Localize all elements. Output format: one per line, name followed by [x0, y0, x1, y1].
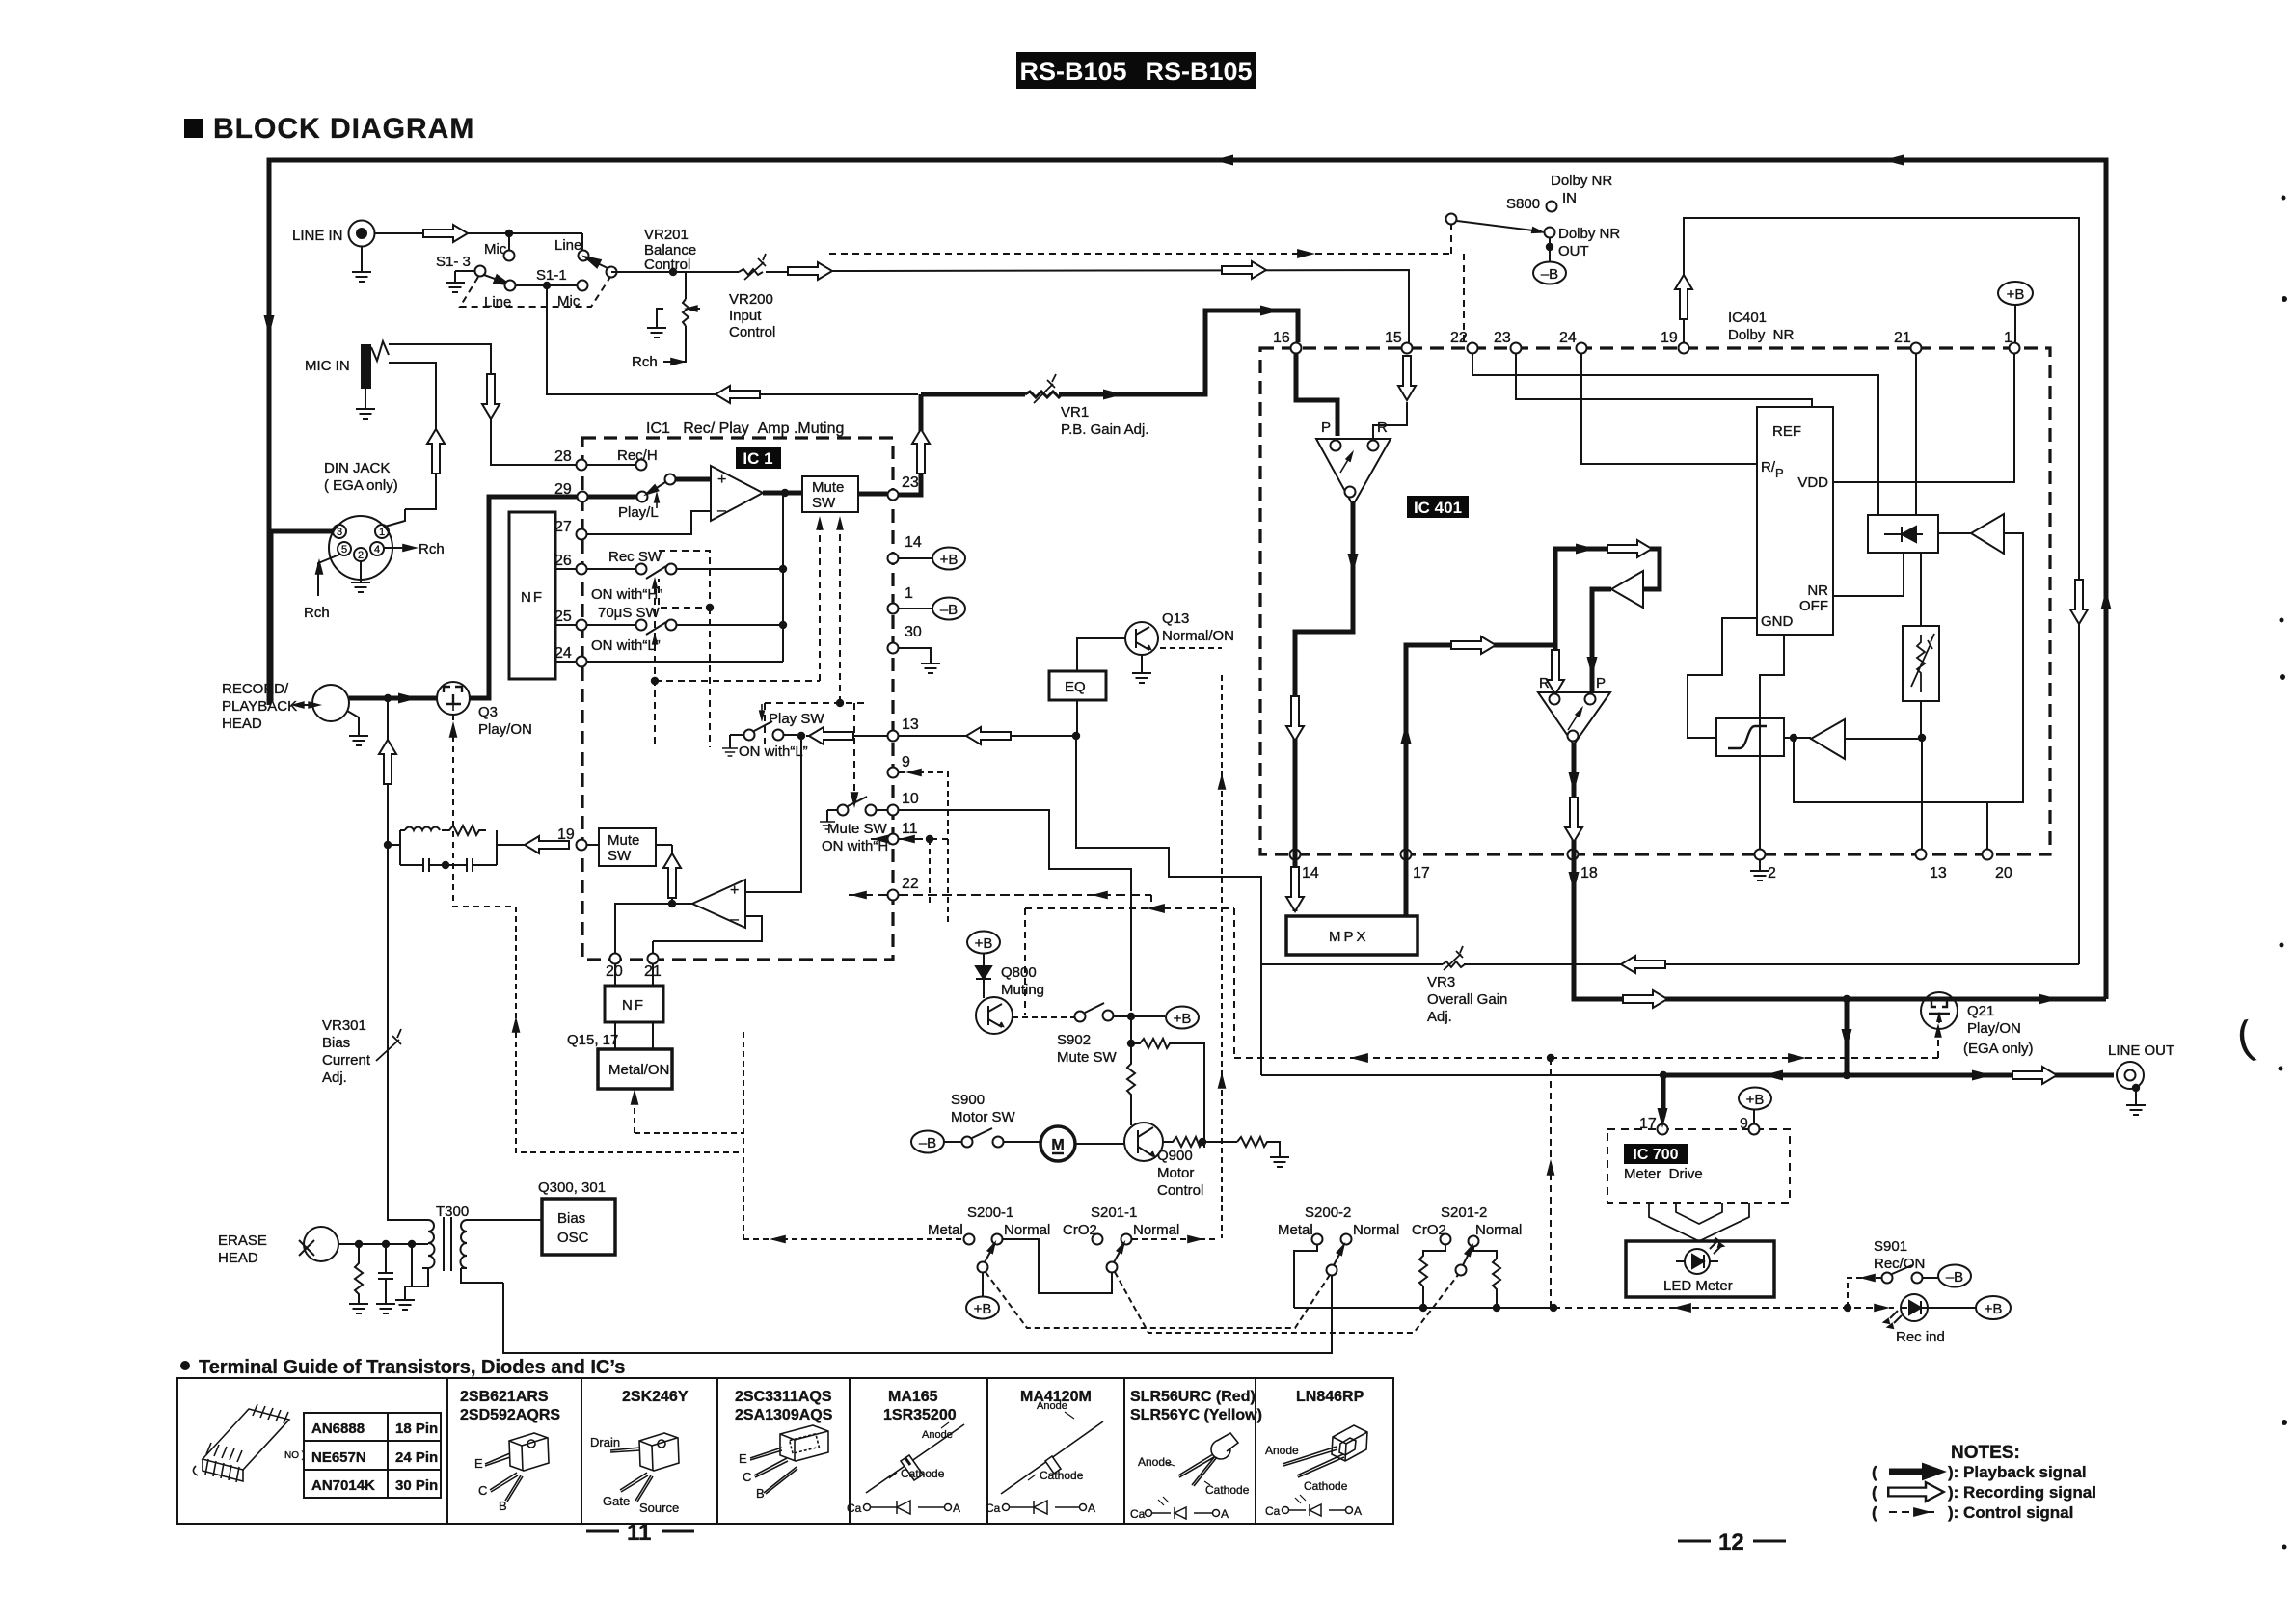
- VDD wire to pin 1: [1833, 353, 2014, 482]
- Q21 transistor: [1921, 992, 2034, 1057]
- svg-text:MIC IN: MIC IN: [305, 358, 350, 374]
- svg-text:S1- 3: S1- 3: [436, 254, 471, 270]
- IC1 badge: [736, 447, 781, 469]
- svg-text:A: A: [1088, 1502, 1095, 1515]
- svg-text:Ca: Ca: [847, 1502, 862, 1515]
- T300 transformer: [395, 1204, 542, 1310]
- bias wire to S200-2: [503, 1275, 1332, 1353]
- arrow up on right border: [2101, 589, 2112, 609]
- svg-text:Normal: Normal: [1353, 1222, 1399, 1238]
- svg-text:ERASE: ERASE: [218, 1232, 267, 1249]
- svg-text:Metal: Metal: [928, 1222, 963, 1238]
- LED LN846RP cell: [1265, 1389, 1367, 1518]
- svg-text:Anode: Anode: [1265, 1444, 1299, 1457]
- pin 1 -B: [888, 585, 966, 620]
- op-amp A1: [711, 466, 763, 521]
- A2 + input from play sw: [745, 736, 801, 892]
- svg-text:OFF: OFF: [1799, 598, 1828, 614]
- svg-text:29: 29: [554, 481, 572, 498]
- svg-text:9: 9: [1740, 1116, 1748, 1132]
- svg-text:Ca: Ca: [1265, 1504, 1281, 1518]
- IC700 meter drive: [1607, 1129, 1790, 1203]
- pin 22 wire to diode box: [1472, 353, 1878, 515]
- svg-text:P.B. Gain Adj.: P.B. Gain Adj.: [1061, 421, 1148, 438]
- amp triangle lower: [1811, 719, 1845, 759]
- svg-text:Dolby NR: Dolby NR: [1551, 173, 1612, 189]
- svg-text:Rch: Rch: [304, 605, 330, 621]
- NF box tall: [509, 512, 555, 679]
- svg-text:70μS SW: 70μS SW: [598, 605, 661, 621]
- DIN pin2 ground: [351, 561, 370, 592]
- pin 23: [858, 394, 921, 501]
- Mute SW box lower: [599, 828, 656, 866]
- dashed control from pin 22: [1025, 895, 1551, 1058]
- IC401 badge: [1407, 496, 1469, 518]
- svg-text:( EGA only): ( EGA only): [324, 477, 398, 494]
- gang dashed S1: [460, 277, 610, 307]
- svg-text:Normal/ON: Normal/ON: [1162, 628, 1234, 644]
- LINE OUT line: [1663, 999, 2114, 1075]
- recording arrow up at pin23: [912, 429, 930, 474]
- title BLOCK DIAGRAM: [184, 113, 474, 145]
- pin 21: [644, 941, 662, 986]
- svg-text:VR301: VR301: [322, 1017, 366, 1034]
- svg-text:LN846RP: LN846RP: [1296, 1389, 1364, 1405]
- svg-text:21: 21: [1894, 330, 1911, 346]
- svg-text:25: 25: [554, 609, 572, 625]
- arrow on left border: [264, 315, 275, 336]
- svg-text:+: +: [717, 472, 726, 488]
- recording arrow up: [427, 429, 445, 474]
- dashed verticals right of IC1: [930, 839, 948, 924]
- svg-text:Rec ind: Rec ind: [1896, 1329, 1945, 1345]
- margin specks: [2279, 196, 2288, 1550]
- svg-text:+B: +B: [974, 1301, 992, 1317]
- svg-text:Input: Input: [729, 308, 762, 324]
- op-amp B2 P/R: [1538, 675, 1610, 744]
- svg-text:24 Pin: 24 Pin: [395, 1449, 438, 1466]
- svg-text:Metal/ON: Metal/ON: [608, 1062, 669, 1078]
- S900 motor sw: [911, 1092, 1040, 1153]
- pin 10 mute sw: [820, 791, 919, 854]
- svg-text:Motor: Motor: [1157, 1165, 1194, 1181]
- Rch feed to VR200: [632, 332, 687, 370]
- pin 28: [554, 447, 658, 471]
- svg-text:MA165: MA165: [888, 1389, 938, 1405]
- pin 21 wire down: [1915, 353, 1917, 515]
- DIN pin3 thick wire to left border: [271, 531, 334, 702]
- svg-text:2SB621ARS: 2SB621ARS: [460, 1389, 549, 1405]
- svg-text:S201-2: S201-2: [1441, 1204, 1487, 1221]
- transistor 2SB621ARS cell: [460, 1389, 560, 1513]
- svg-text:–: –: [730, 911, 739, 928]
- svg-text:R: R: [1539, 675, 1550, 691]
- +B oval above pin 1: [1998, 282, 2033, 342]
- S-curve box: [1716, 718, 1784, 756]
- erase head resistor to ground: [349, 1240, 368, 1313]
- svg-text:Adj.: Adj.: [1427, 1009, 1452, 1025]
- svg-text:13: 13: [902, 717, 919, 733]
- svg-text:Rch: Rch: [419, 541, 445, 557]
- svg-text:Drain: Drain: [590, 1435, 620, 1449]
- dashed junction down: [1550, 1058, 1552, 1308]
- CrO2 resistor: [1419, 1245, 1445, 1308]
- svg-text:P: P: [1596, 675, 1606, 691]
- GND wire to pin 2: [1760, 635, 1784, 849]
- svg-text:HEAD: HEAD: [218, 1250, 258, 1266]
- svg-text:Dolby NR: Dolby NR: [1728, 327, 1795, 343]
- S902 node resistor right: [1127, 1016, 1204, 1148]
- pin 2 ground: [1750, 860, 1769, 880]
- svg-text:Bias: Bias: [322, 1035, 350, 1051]
- svg-text:Rec/ON: Rec/ON: [1874, 1256, 1925, 1272]
- svg-text:10: 10: [902, 791, 919, 807]
- IC pin-count table: [304, 1413, 441, 1498]
- svg-text:16: 16: [1273, 330, 1290, 346]
- erase head capacitor to ground: [376, 1244, 395, 1313]
- svg-text:Overall Gain: Overall Gain: [1427, 991, 1507, 1008]
- svg-text:NO ): NO ): [284, 1450, 305, 1461]
- pin 24: [554, 645, 783, 667]
- LINE IN jack: [292, 221, 375, 283]
- svg-text:2SD592AQRS: 2SD592AQRS: [460, 1407, 560, 1423]
- svg-text:4: 4: [374, 544, 380, 555]
- VR3 overall gain: [1261, 946, 2079, 1025]
- pin13 wire to EQ: [899, 735, 1075, 737]
- svg-text:15: 15: [1385, 330, 1402, 346]
- NF box lower: [605, 986, 663, 1022]
- svg-text:+: +: [730, 882, 739, 899]
- amp triangle upper: [1611, 571, 1643, 608]
- svg-text:Rec SW: Rec SW: [608, 549, 662, 565]
- svg-text:+B: +B: [940, 552, 959, 568]
- svg-text:S201-1: S201-1: [1091, 1204, 1137, 1221]
- pin 19 mute sw lower: [525, 826, 599, 853]
- svg-text:Cathode: Cathode: [1040, 1469, 1084, 1482]
- svg-text:20: 20: [606, 963, 623, 980]
- recording arrow after VR201: [788, 262, 832, 280]
- svg-text:A: A: [1221, 1507, 1229, 1521]
- thick wire head to Q3: [349, 696, 437, 701]
- wire LINE IN to S1-1: [375, 230, 582, 250]
- mic wire to IC1 pin 28: [389, 344, 576, 465]
- svg-text:27: 27: [554, 519, 572, 535]
- amp out to P of B2: [1592, 589, 1611, 692]
- pin 20 wire: [1986, 802, 1988, 849]
- svg-text:SW: SW: [812, 495, 836, 511]
- pin 24 wire to R/P: [1581, 353, 1757, 464]
- svg-text:Cathode: Cathode: [1304, 1479, 1348, 1493]
- Q21 gate dashed: [1551, 1028, 1938, 1058]
- A2 feedback: [653, 916, 762, 941]
- svg-text:R: R: [1377, 420, 1388, 436]
- svg-text:Meter Drive: Meter Drive: [1624, 1166, 1703, 1182]
- svg-text:Mute SW: Mute SW: [827, 821, 888, 837]
- pin 23 wire to REF: [1516, 353, 1812, 407]
- pin 26 Rec SW: [554, 549, 783, 603]
- page number 12: [1678, 1529, 1786, 1556]
- IC401 bottom pins: [1290, 850, 2012, 882]
- LED Meter box: [1626, 1238, 1774, 1297]
- svg-text:Metal: Metal: [1278, 1222, 1313, 1238]
- svg-text:20: 20: [1995, 865, 2012, 881]
- VR200 input control pot: [647, 272, 775, 340]
- var res wires: [1920, 553, 1922, 738]
- svg-text:SW: SW: [608, 848, 632, 864]
- svg-text:Terminal Guide of Transistors,: Terminal Guide of Transistors, Diodes an…: [199, 1357, 625, 1378]
- svg-text:Play/ON: Play/ON: [1967, 1020, 2021, 1037]
- NR OFF wire to diode box: [1833, 553, 1904, 596]
- pin 9: [888, 754, 949, 834]
- thick playback line with VR1: [921, 311, 1298, 394]
- svg-text:LED Meter: LED Meter: [1663, 1278, 1733, 1294]
- outer thick border (playback loop): [269, 160, 2106, 999]
- svg-text:Q3: Q3: [478, 704, 498, 720]
- IC700 badge: [1624, 1144, 1688, 1164]
- dashed box around rec switches: [655, 521, 869, 802]
- pin 30 ground: [888, 624, 941, 673]
- svg-text:Motor SW: Motor SW: [951, 1109, 1016, 1125]
- S201-2: [1412, 1204, 1522, 1276]
- svg-text:BLOCK DIAGRAM: BLOCK DIAGRAM: [213, 113, 474, 145]
- recording arrow down on mic line: [482, 374, 500, 419]
- svg-text:IN: IN: [1562, 190, 1577, 206]
- svg-text:S901: S901: [1874, 1238, 1907, 1255]
- ERASE HEAD: [218, 1227, 428, 1266]
- svg-text:LINE IN: LINE IN: [292, 228, 343, 244]
- staircase control wire: [1076, 736, 1261, 1075]
- svg-text:Control: Control: [644, 257, 690, 273]
- funnel to LED meter: [1649, 1203, 1749, 1241]
- pin 11: [871, 821, 948, 845]
- svg-text:2: 2: [358, 550, 364, 561]
- svg-text:Mute: Mute: [608, 832, 639, 849]
- svg-text:MPX: MPX: [1329, 929, 1369, 945]
- Q13 transistor: [1125, 610, 1234, 683]
- svg-text:–B: –B: [919, 1135, 936, 1151]
- svg-text:HEAD: HEAD: [222, 716, 262, 732]
- pin 20: [606, 954, 623, 987]
- thick MPX to pin 17 up: [1406, 645, 1555, 916]
- svg-text:2: 2: [1768, 865, 1776, 881]
- svg-text:RS-B105: RS-B105: [1019, 57, 1126, 86]
- control bus dashed vertical: [1160, 648, 1222, 1238]
- Q900 motor control: [1124, 1123, 1203, 1199]
- svg-text:23: 23: [1494, 330, 1511, 346]
- svg-text:S900: S900: [951, 1092, 985, 1108]
- Q3 gate dashed: [453, 715, 516, 907]
- svg-text:S1-1: S1-1: [536, 267, 567, 284]
- svg-text:Play/L: Play/L: [618, 504, 659, 521]
- svg-text:C: C: [478, 1483, 487, 1498]
- svg-text:RECORD/: RECORD/: [222, 681, 289, 697]
- svg-text:Control: Control: [1157, 1182, 1203, 1199]
- svg-text:OUT: OUT: [1558, 243, 1589, 259]
- switch S1-3 lower: [446, 266, 918, 395]
- Q900 emitter resistors: [1163, 1137, 1289, 1167]
- svg-text:+B: +B: [1746, 1092, 1765, 1108]
- diode MA4120M cell: [986, 1389, 1103, 1515]
- Q800 muting: [967, 932, 1044, 1035]
- VR301 bias current adj: [322, 1017, 401, 1086]
- S-curve left wire: [1688, 618, 1757, 738]
- svg-text:Line: Line: [554, 237, 581, 254]
- pin 27: [554, 519, 587, 540]
- Rec ind LED: [1884, 1294, 2011, 1345]
- svg-text:Line: Line: [484, 294, 511, 311]
- svg-text:Play/ON: Play/ON: [478, 721, 532, 738]
- gang dashes S200-1/S200-2: [986, 1272, 1458, 1333]
- IC package drawing: [193, 1404, 305, 1482]
- svg-text:Mute SW: Mute SW: [1057, 1049, 1118, 1066]
- recording arrow left at pin13: [809, 727, 853, 744]
- mic ring wire down to DIN: [389, 363, 436, 509]
- svg-text:IC401: IC401: [1728, 310, 1767, 326]
- DIN pin1 wire: [385, 509, 405, 527]
- svg-text:12: 12: [1718, 1529, 1744, 1556]
- svg-text:C: C: [743, 1470, 751, 1484]
- svg-text:SLR56URC (Red): SLR56URC (Red): [1130, 1389, 1256, 1405]
- terminal guide table frame: [177, 1378, 1393, 1524]
- svg-text:NF: NF: [521, 589, 544, 606]
- Normal resistor: [1473, 1247, 1500, 1308]
- svg-text:+B: +B: [1985, 1301, 2003, 1317]
- LINE OUT jack: [2108, 1042, 2174, 1115]
- motor M: [1040, 1126, 1124, 1161]
- B1 output thick to pin 14 and MPX: [1295, 501, 1353, 911]
- svg-text:GND: GND: [1761, 613, 1794, 630]
- svg-text:A: A: [953, 1502, 960, 1515]
- amp right wiring loop: [1794, 533, 2023, 802]
- svg-text:): Playback signal: ): Playback signal: [1948, 1463, 2087, 1481]
- svg-text:Q13: Q13: [1162, 610, 1189, 627]
- op-amp B1 P/R: [1316, 420, 1391, 505]
- DIN pin4 Rch arrow: [384, 541, 445, 557]
- svg-text:SLR56YC (Yellow): SLR56YC (Yellow): [1130, 1407, 1262, 1423]
- pin 13 wire: [1921, 738, 1923, 849]
- svg-text:11: 11: [902, 821, 918, 837]
- Bias OSC box: [542, 1199, 615, 1255]
- recording arrow left on monitor line: [716, 386, 760, 403]
- svg-text:Q300, 301: Q300, 301: [538, 1179, 606, 1196]
- A1 output to Mute SW: [763, 491, 802, 496]
- svg-text:1SR35200: 1SR35200: [883, 1407, 957, 1423]
- svg-text:P: P: [1775, 466, 1784, 480]
- svg-text:18 Pin: 18 Pin: [395, 1421, 438, 1437]
- svg-text:A: A: [1354, 1504, 1362, 1518]
- svg-text:VR200: VR200: [729, 291, 773, 308]
- svg-text:): Recording signal: ): Recording signal: [1948, 1483, 2096, 1502]
- pin15 wire to op-amp R: [1373, 402, 1407, 440]
- svg-text:1: 1: [905, 585, 913, 602]
- dashed control into Metal/ON: [635, 1095, 743, 1133]
- recording arrow on line: [1222, 261, 1266, 279]
- svg-text:VR1: VR1: [1061, 404, 1089, 420]
- S902 mute sw: [1013, 1003, 1199, 1066]
- wires NF to Metal/ON: [615, 1022, 653, 1049]
- svg-text:PLAYBACK: PLAYBACK: [222, 698, 297, 715]
- svg-text:NF: NF: [622, 997, 645, 1014]
- MPX box: [1286, 916, 1418, 955]
- NOTES legend: [1872, 1443, 2096, 1522]
- switch S1-1: [436, 237, 686, 284]
- pin 13 play sw: [722, 704, 919, 760]
- B2 output thick to pin 18 and line out: [1574, 743, 2106, 999]
- svg-text:REF: REF: [1772, 423, 1801, 440]
- svg-text:B: B: [499, 1499, 507, 1513]
- svg-text:EQ: EQ: [1065, 679, 1086, 695]
- svg-text:S800: S800: [1506, 196, 1540, 212]
- svg-text:ON with“L”: ON with“L”: [739, 744, 808, 760]
- DIN JACK: [324, 460, 398, 580]
- svg-text:Normal: Normal: [1475, 1222, 1522, 1238]
- svg-text:IC 1: IC 1: [743, 449, 772, 468]
- recording arrow into pin 15: [1398, 356, 1416, 400]
- control block box: [1757, 407, 1833, 635]
- svg-text:Anode: Anode: [1138, 1455, 1172, 1469]
- svg-text:VR3: VR3: [1427, 974, 1455, 990]
- svg-text:CrO2: CrO2: [1063, 1222, 1097, 1238]
- recording line to IC401 pin 15: [832, 270, 1409, 342]
- dashed Metal control line: [743, 1238, 962, 1240]
- svg-text:AN6888: AN6888: [311, 1421, 365, 1437]
- svg-text:RS-B105: RS-B105: [1145, 57, 1252, 86]
- thick riser and top run: [1555, 549, 1660, 692]
- pin 22: [849, 876, 1151, 901]
- svg-text:30: 30: [905, 624, 922, 640]
- EQ box: [1049, 671, 1106, 700]
- svg-text:OSC: OSC: [557, 1230, 589, 1246]
- svg-text:22: 22: [1450, 330, 1468, 346]
- svg-text:+B: +B: [2007, 286, 2025, 303]
- S-curve to amp wire: [1784, 738, 1922, 739]
- svg-text:): Control signal: ): Control signal: [1948, 1503, 2073, 1522]
- svg-text:B: B: [756, 1486, 765, 1501]
- Metal/ON box: [598, 1049, 672, 1089]
- svg-text:2SK246Y: 2SK246Y: [622, 1389, 689, 1405]
- svg-text:22: 22: [902, 876, 919, 892]
- svg-text:17: 17: [1413, 865, 1430, 881]
- S201-1: [1063, 1204, 1179, 1273]
- IC1 dashed box: [582, 438, 893, 960]
- thick wire Q3 to pin29: [470, 497, 577, 698]
- svg-text:5: 5: [341, 544, 347, 555]
- IC401 label: [1728, 310, 1795, 343]
- MIC IN jack: [305, 341, 389, 419]
- svg-text:1: 1: [379, 527, 385, 538]
- S901 rec/on: [1848, 1238, 1971, 1308]
- recording arrow up on head wire: [379, 740, 396, 784]
- svg-text:Play SW: Play SW: [769, 711, 824, 727]
- svg-text:23: 23: [902, 474, 919, 491]
- svg-text:19: 19: [1661, 330, 1678, 346]
- IC401 dashed box: [1260, 348, 2050, 854]
- svg-text:+B: +B: [975, 935, 993, 952]
- IC700 pin 9 +B: [1739, 1088, 1771, 1135]
- header badge RS-B105: [1016, 52, 1256, 89]
- VR1 pot: [1025, 374, 1148, 438]
- svg-text:E: E: [739, 1451, 747, 1466]
- wire mute sw to op-amp A2: [656, 845, 672, 904]
- S201-1 normal to bus dashed: [1132, 1238, 1215, 1240]
- svg-text:LINE OUT: LINE OUT: [2108, 1042, 2174, 1059]
- svg-text:24: 24: [1559, 330, 1577, 346]
- svg-text:Dolby NR: Dolby NR: [1558, 226, 1620, 242]
- svg-text:M: M: [1051, 1137, 1064, 1153]
- svg-text:S200-1: S200-1: [967, 1204, 1013, 1221]
- svg-text:–B: –B: [1541, 266, 1558, 283]
- svg-text:Anode: Anode: [1037, 1400, 1067, 1412]
